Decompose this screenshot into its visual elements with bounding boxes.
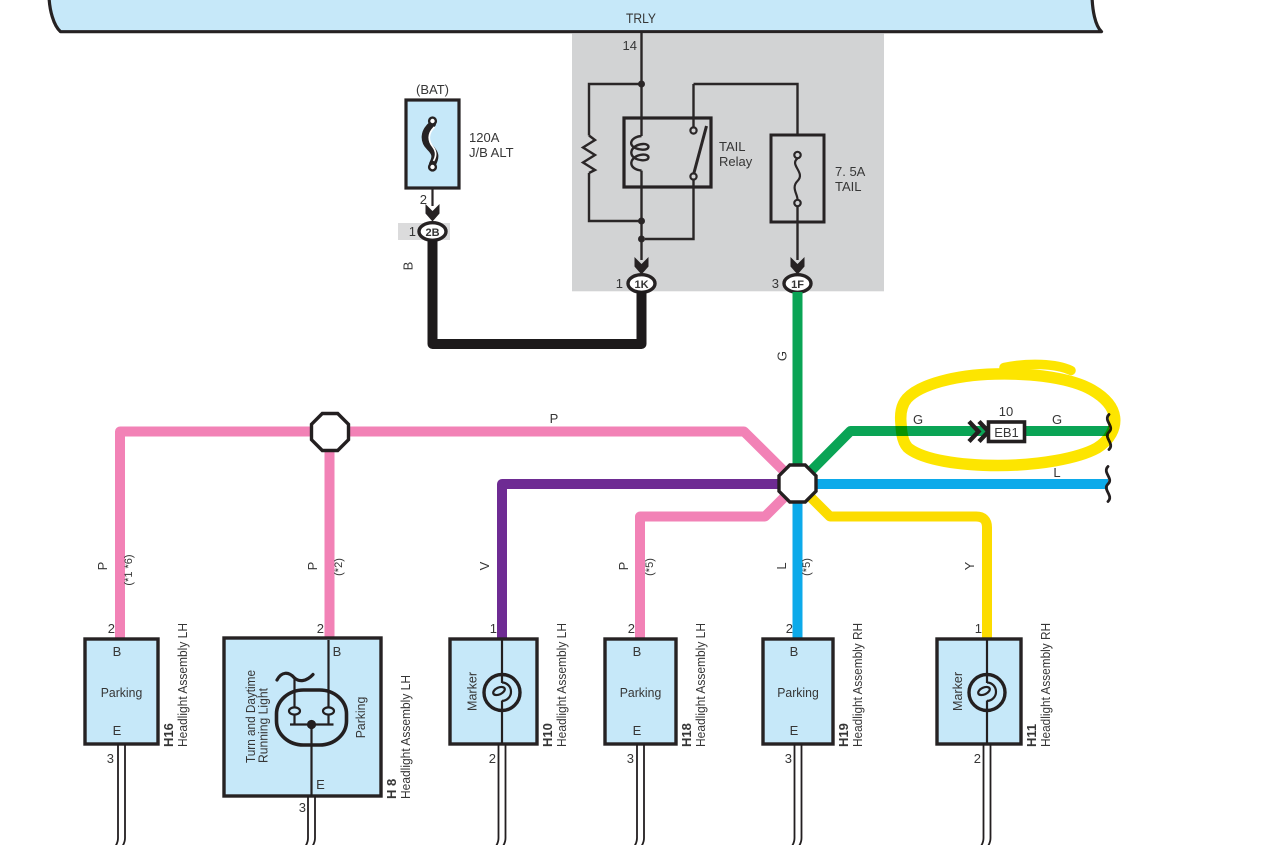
resistor (relay coil shunt): [583, 136, 595, 174]
svg-text:Running Light: Running Light: [256, 688, 271, 763]
wire L blue down to H19: [793, 484, 803, 639]
svg-text:B: B: [633, 644, 642, 659]
junction node octagon pink: [312, 414, 349, 451]
component H8 Turn and Daytime Running Light / Parking: [224, 621, 413, 815]
svg-text:1: 1: [616, 276, 623, 291]
bus bar TRLY: [49, 0, 1102, 32]
wire resistor return: [589, 173, 642, 221]
wire relay top to fuse: [694, 84, 798, 135]
svg-text:B: B: [113, 644, 122, 659]
svg-text:(*5): (*5): [644, 558, 656, 576]
node junction dot switch return: [638, 236, 645, 243]
svg-text:1F: 1F: [791, 279, 804, 291]
svg-text:V: V: [477, 561, 492, 570]
svg-text:3: 3: [627, 751, 634, 766]
component H19 Parking: [763, 621, 865, 766]
svg-text:Marker: Marker: [465, 671, 480, 711]
svg-text:2: 2: [108, 621, 115, 636]
svg-text:2: 2: [786, 621, 793, 636]
relay coil: [640, 84, 642, 136]
svg-text:3: 3: [299, 800, 306, 815]
svg-text:Marker: Marker: [950, 671, 965, 711]
component H18 Parking: [605, 621, 708, 766]
svg-text:(*2): (*2): [333, 558, 345, 576]
wire P pink branch to H8: [325, 432, 335, 640]
svg-text:(*5): (*5): [801, 558, 813, 576]
bulb H11: [969, 675, 1005, 711]
svg-text:1: 1: [490, 621, 497, 636]
wire L blue right: [798, 479, 1109, 489]
break symbol blue end: [1106, 467, 1109, 502]
arrow into 1K: [635, 257, 649, 275]
relay switch top contact: [690, 127, 696, 133]
svg-text:7. 5A: 7. 5A: [835, 164, 866, 179]
fuse 120A J/B ALT: [406, 82, 514, 188]
svg-text:E: E: [633, 723, 642, 738]
wire shield H18: [635, 744, 638, 845]
relay switch bottom contact: [690, 173, 696, 179]
svg-text:1: 1: [975, 621, 982, 636]
svg-text:Headlight Assembly LH: Headlight Assembly LH: [398, 675, 413, 799]
wire switch return: [645, 180, 694, 240]
svg-text:3: 3: [772, 276, 779, 291]
svg-text:Parking: Parking: [353, 697, 368, 739]
svg-text:G: G: [913, 412, 923, 427]
connector 2B highlight band: [398, 223, 450, 240]
svg-text:2B: 2B: [425, 227, 439, 239]
svg-text:L: L: [1053, 465, 1060, 480]
svg-text:Headlight Assembly LH: Headlight Assembly LH: [693, 623, 708, 747]
wire shield H10: [496, 744, 499, 845]
fuse F2 7.5A TAIL: [771, 135, 866, 222]
relay switch contact wire: [692, 84, 694, 128]
svg-text:J/B ALT: J/B ALT: [469, 145, 514, 160]
wire G green vertical 1F to junction: [793, 292, 803, 484]
relay box U1 TAIL Relay: [624, 118, 711, 187]
svg-text:H18: H18: [679, 723, 694, 747]
wire shield H11: [981, 744, 984, 845]
relay switch blade: [694, 126, 707, 174]
svg-text:TAIL: TAIL: [719, 139, 746, 154]
wire P pink to H18: [640, 484, 798, 639]
svg-text:E: E: [316, 777, 325, 792]
bulb H10: [484, 675, 520, 711]
svg-text:10: 10: [999, 404, 1013, 419]
svg-text:1K: 1K: [634, 279, 648, 291]
svg-text:TAIL: TAIL: [835, 179, 862, 194]
svg-text:H 8: H 8: [384, 779, 399, 799]
svg-text:Parking: Parking: [620, 685, 662, 700]
wire B thick black 2B to 1K: [433, 240, 642, 344]
wire P pink main run: [120, 432, 799, 640]
break symbol green end: [1107, 415, 1110, 450]
connector 2B: [409, 223, 446, 241]
svg-text:L: L: [774, 562, 789, 569]
junction node octagon main: [779, 465, 816, 502]
svg-text:Headlight Assembly RH: Headlight Assembly RH: [850, 623, 865, 747]
svg-text:Parking: Parking: [101, 685, 143, 700]
connector 1K: [616, 275, 655, 293]
wire shield H19: [792, 744, 795, 845]
svg-text:G: G: [1052, 412, 1062, 427]
component H16 Parking: [85, 621, 190, 766]
node junction dot resistor return: [638, 218, 645, 225]
svg-text:Headlight Assembly LH: Headlight Assembly LH: [175, 623, 190, 747]
svg-text:E: E: [790, 723, 799, 738]
svg-text:B: B: [401, 262, 416, 271]
bulb H8: [277, 690, 347, 745]
svg-text:G: G: [775, 351, 790, 361]
wire pin14 from TRLY: [640, 33, 642, 84]
svg-text:(BAT): (BAT): [416, 82, 449, 97]
svg-text:B: B: [790, 644, 799, 659]
svg-text:1: 1: [409, 224, 416, 239]
wire V purple to H10: [502, 484, 798, 639]
svg-text:2: 2: [974, 751, 981, 766]
svg-text:H10: H10: [540, 723, 555, 747]
svg-text:2: 2: [489, 751, 496, 766]
svg-text:Headlight Assembly RH: Headlight Assembly RH: [1038, 623, 1053, 747]
component H10 Marker: [450, 621, 569, 766]
svg-text:Y: Y: [962, 561, 977, 570]
svg-text:H19: H19: [836, 723, 851, 747]
wire coil to 1K: [640, 239, 642, 260]
wire fuse to 2B: [431, 188, 433, 206]
svg-text:(*1 *6): (*1 *6): [123, 554, 135, 585]
svg-text:P: P: [95, 562, 110, 571]
arrow into 2B: [426, 204, 440, 222]
svg-text:EB1: EB1: [994, 425, 1019, 440]
svg-text:3: 3: [107, 751, 114, 766]
wire Y yellow to H11: [798, 484, 988, 639]
svg-text:Relay: Relay: [719, 154, 753, 169]
svg-text:14: 14: [623, 38, 637, 53]
annotation highlight loop EB1: [901, 364, 1115, 465]
svg-text:E: E: [113, 723, 122, 738]
svg-text:2: 2: [317, 621, 324, 636]
svg-text:TRLY: TRLY: [626, 11, 656, 26]
wire to resistor branch: [589, 84, 642, 136]
node junction dot top: [638, 81, 645, 88]
svg-text:Headlight Assembly LH: Headlight Assembly LH: [554, 623, 569, 747]
wire fuse to 1F: [796, 206, 798, 260]
svg-text:P: P: [550, 411, 559, 426]
relay block shading: [572, 33, 884, 291]
svg-text:H11: H11: [1024, 724, 1039, 747]
connector arrows EB1: [969, 422, 989, 442]
svg-text:P: P: [616, 562, 631, 571]
connector EB1: [989, 422, 1025, 442]
component H11 Marker: [937, 621, 1053, 766]
connector 1F: [772, 275, 811, 293]
svg-text:3: 3: [785, 751, 792, 766]
svg-text:H16: H16: [161, 723, 176, 747]
wire shield H8: [306, 796, 309, 845]
arrow into 1F: [791, 257, 805, 275]
svg-text:2: 2: [628, 621, 635, 636]
svg-text:B: B: [333, 644, 342, 659]
svg-text:Parking: Parking: [777, 685, 819, 700]
svg-text:P: P: [305, 562, 320, 571]
wire shield H16: [116, 744, 119, 845]
svg-text:120A: 120A: [469, 130, 500, 145]
filament squiggle open end: [277, 673, 313, 680]
wire G green to EB1: [798, 431, 1110, 485]
